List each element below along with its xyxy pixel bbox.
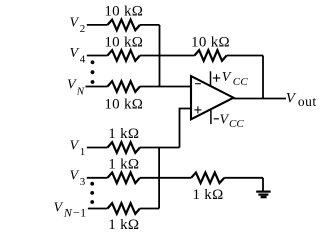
- resistor R4: [108, 142, 140, 153]
- resistor R6: [108, 203, 140, 214]
- svg-text:1 kΩ: 1 kΩ: [108, 156, 139, 172]
- wire VN-1 to R6: [88, 208, 108, 210]
- node label V4: [70, 46, 86, 66]
- wire V4 to R2: [87, 55, 108, 57]
- bus A vertical (summing node, inverting side): [159, 25, 161, 87]
- resistor R1: [108, 20, 140, 31]
- svg-text:V: V: [222, 70, 232, 85]
- svg-text:10 kΩ: 10 kΩ: [104, 4, 143, 20]
- svg-text:CC: CC: [229, 118, 244, 130]
- svg-text:V: V: [70, 138, 80, 153]
- svg-text:1 kΩ: 1 kΩ: [108, 217, 139, 233]
- node label V3: [70, 168, 86, 188]
- resistor R3: [108, 81, 140, 92]
- wire riser to non-inverting input: [180, 109, 192, 148]
- svg-text:3: 3: [80, 176, 86, 188]
- wire op-amp output: [234, 98, 287, 100]
- node label VN-1: [54, 201, 87, 220]
- ellipsis dots more inputs bottom: [90, 182, 94, 204]
- svg-text:10 kΩ: 10 kΩ: [191, 34, 230, 50]
- node label V2: [70, 16, 86, 36]
- wire feedback vertical to output node: [262, 56, 264, 99]
- svg-text:4: 4: [80, 54, 86, 66]
- wire Rg to ground corner: [224, 177, 263, 179]
- resistor R5: [108, 173, 140, 184]
- node label V1: [70, 138, 86, 158]
- svg-text:N: N: [63, 206, 73, 220]
- svg-text:1 kΩ: 1 kΩ: [108, 126, 139, 142]
- svg-text:CC: CC: [233, 76, 249, 88]
- wire R1 to bus A: [140, 24, 160, 26]
- svg-text:N: N: [76, 86, 85, 98]
- wire R6 to bus B: [140, 208, 159, 210]
- wire V3 to R5: [87, 177, 108, 179]
- svg-text:V: V: [220, 113, 230, 128]
- wire VN to R3: [86, 86, 108, 88]
- wire R4 to riser corner: [140, 147, 180, 149]
- wire R2 to bus A and feedback branch: [140, 55, 195, 57]
- resistor Rf feedback: [195, 50, 227, 61]
- svg-text:10 kΩ: 10 kΩ: [104, 97, 143, 113]
- resistor Rg to ground: [191, 173, 224, 184]
- node label VN: [67, 78, 85, 98]
- svg-text:V: V: [70, 168, 80, 183]
- svg-text:V: V: [54, 201, 64, 216]
- svg-text:1: 1: [80, 146, 86, 158]
- wire Rf to feedback corner: [227, 55, 263, 57]
- svg-text:1 kΩ: 1 kΩ: [192, 187, 223, 203]
- wire R3 to op-amp inverting input: [140, 86, 191, 88]
- op-amp U1 inverting input minus sign: [195, 83, 201, 85]
- ellipsis dots more inputs top: [91, 60, 95, 84]
- bus B vertical (non-inverting side): [158, 148, 160, 209]
- svg-text:out: out: [298, 94, 317, 109]
- op-amp U1 non-inverting input plus sign: [194, 106, 201, 113]
- svg-text:V: V: [70, 16, 80, 31]
- power label -VCC: [214, 118, 219, 120]
- wire V2 to R1: [87, 24, 108, 26]
- op-amp negative supply pin lead: [210, 110, 212, 124]
- svg-text:V: V: [67, 78, 77, 93]
- node label Vout: [286, 90, 317, 109]
- resistor R2: [108, 50, 140, 61]
- svg-text:2: 2: [80, 23, 86, 35]
- svg-text:10 kΩ: 10 kΩ: [104, 34, 143, 50]
- wire R5 to Rg: [140, 177, 191, 179]
- power label +VCC: [213, 74, 220, 81]
- ground symbol: [256, 191, 270, 199]
- op-amp U1 triangle: [191, 76, 234, 119]
- wire ground stub: [262, 178, 264, 191]
- svg-text:−1: −1: [73, 206, 87, 220]
- wire V1 to R4: [87, 147, 108, 149]
- op-amp positive supply pin lead: [210, 71, 212, 86]
- svg-text:V: V: [70, 46, 80, 61]
